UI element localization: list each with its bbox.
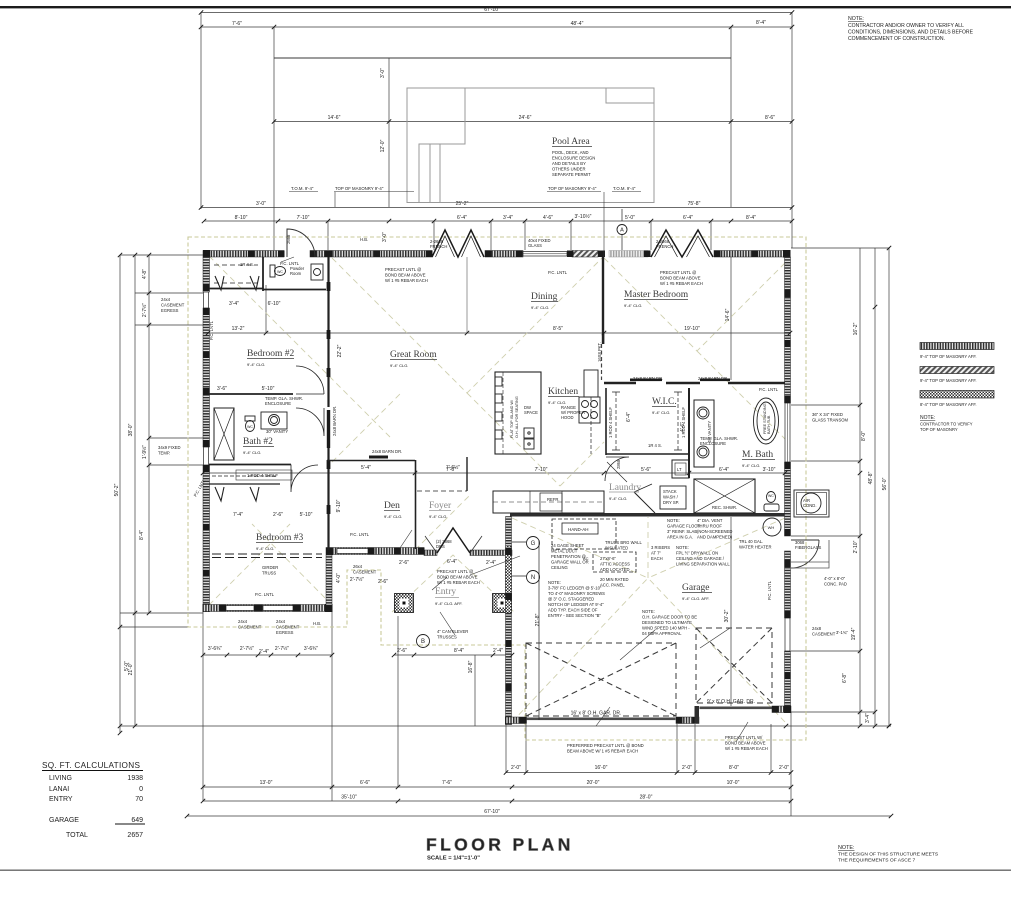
freestanding tub: [754, 398, 779, 444]
svg-text:3'-4": 3'-4": [503, 215, 513, 221]
svg-text:CEILING AND GARAGE /: CEILING AND GARAGE /: [676, 556, 725, 561]
mbath sinks: [697, 407, 709, 419]
barn door slabs master: [630, 379, 662, 382]
svg-text:9'-4" CLG.: 9'-4" CLG.: [624, 303, 642, 308]
left dim connectors: [120, 255, 203, 627]
svg-text:REC. SHWR.: REC. SHWR.: [712, 505, 737, 510]
svg-text:4'-0": 4'-0": [336, 573, 342, 583]
bottom dim row y811 overall 67'-10: [187, 815, 891, 817]
svg-text:PREFERRED PRECAST LNTL @ BOND: PREFERRED PRECAST LNTL @ BOND: [567, 743, 644, 748]
svg-text:GARAGE: GARAGE: [49, 817, 79, 824]
pocket door dashed: [601, 344, 603, 380]
svg-text:3'-4": 3'-4": [229, 301, 239, 307]
svg-text:5'-10": 5'-10": [262, 386, 275, 392]
key circle B: [417, 635, 430, 648]
svg-text:2668: 2668: [286, 234, 291, 244]
dim extension vertical x731: [730, 27, 732, 207]
svg-text:CASEMENT: CASEMENT: [276, 625, 300, 630]
svg-text:75'-8": 75'-8": [688, 201, 701, 207]
den top wall: [327, 460, 415, 462]
svg-text:DRS: DRS: [436, 544, 445, 549]
svg-text:LIVING SEPARATION WALL: LIVING SEPARATION WALL: [676, 562, 730, 567]
left wall solid blocks: [203, 284, 211, 612]
svg-text:GIRDER: GIRDER: [262, 565, 278, 570]
mbath vanity: [694, 400, 714, 467]
svg-text:9'-4" TOP OF MASONRY AFF.: 9'-4" TOP OF MASONRY AFF.: [920, 354, 977, 359]
svg-text:SPACE: SPACE: [524, 410, 538, 415]
svg-text:6'-4": 6'-4": [447, 559, 457, 565]
AC unit on pad: [794, 490, 829, 517]
svg-text:SQ. FT. CALCULATIONS: SQ. FT. CALCULATIONS: [42, 761, 140, 770]
svg-text:3'-10": 3'-10": [763, 467, 776, 473]
left wall window bedroom2 24x4: [204, 292, 209, 308]
left dim vertical x120 50'-2: [119, 255, 121, 733]
svg-text:CONDITIONS, DIMENSIONS, AND DE: CONDITIONS, DIMENSIONS, AND DETAILS BEFO…: [848, 30, 974, 36]
svg-text:30'-2": 30'-2": [724, 609, 730, 622]
bath2 north wall: [209, 393, 293, 395]
dim line pool 14'-6 24'-6 8'-6: [274, 121, 792, 123]
svg-text:G: G: [531, 541, 536, 547]
svg-text:24'-6": 24'-6": [519, 115, 532, 121]
svg-text:6'-6": 6'-6": [360, 780, 370, 786]
svg-text:5'-10": 5'-10": [300, 512, 313, 518]
svg-text:27'x8'-6": 27'x8'-6": [600, 556, 616, 561]
entry lower dim row y655: [394, 654, 512, 656]
side door 3068 opening arc to conc pad: [791, 540, 819, 568]
svg-text:ENCLOSURE: ENCLOSURE: [265, 401, 291, 406]
svg-text:GARAGE FLOOR: GARAGE FLOOR: [667, 524, 701, 529]
svg-text:WC: WC: [277, 270, 283, 274]
svg-text:24x4: 24x4: [238, 619, 248, 624]
svg-text:CONTRACTOR AND/OR OWNER TO VER: CONTRACTOR AND/OR OWNER TO VERIFY ALL: [848, 23, 964, 29]
svg-text:CONTRACTOR TO VERIFY: CONTRACTOR TO VERIFY: [920, 422, 973, 427]
roof hip great room lower: [332, 392, 470, 550]
svg-text:W/ 1 #5 REBAR EACH: W/ 1 #5 REBAR EACH: [725, 746, 768, 751]
svg-text:ADD TYP. EACH SIDE OF: ADD TYP. EACH SIDE OF: [548, 608, 598, 613]
svg-text:2'-10": 2'-10": [853, 540, 859, 553]
svg-text:PRECAST LNTL @: PRECAST LNTL @: [660, 270, 696, 275]
svg-text:26x4: 26x4: [353, 564, 363, 569]
svg-text:2'-6": 2'-6": [378, 579, 388, 585]
svg-text:TOP OF MASONRY 9'-4": TOP OF MASONRY 9'-4": [335, 186, 384, 191]
svg-text:Pool Area: Pool Area: [552, 137, 591, 147]
WIC closet rods dashed: [616, 392, 678, 450]
svg-text:8'-6": 8'-6": [765, 115, 775, 121]
svg-text:M. Bath: M. Bath: [742, 450, 773, 460]
svg-text:16' x 8' O.H. GAR. DR.: 16' x 8' O.H. GAR. DR.: [571, 711, 622, 717]
svg-text:BOND BEAM ABOVE: BOND BEAM ABOVE: [385, 273, 426, 278]
svg-text:PRECAST LNTL W/: PRECAST LNTL W/: [725, 735, 763, 740]
mbath WC: [767, 492, 776, 503]
svg-text:HAND-AH: HAND-AH: [568, 527, 589, 532]
svg-text:CASEMENT: CASEMENT: [353, 570, 377, 575]
left wall window bath2 34x9 fixed: [204, 447, 209, 465]
svg-text:WH: WH: [768, 525, 775, 530]
svg-text:2'-0": 2'-0": [682, 765, 692, 771]
svg-text:P.C. LNTL: P.C. LNTL: [209, 320, 214, 340]
wall blocks on bed2/great wall: [327, 282, 331, 514]
svg-text:W/ 1 #5 REBAR EACH: W/ 1 #5 REBAR EACH: [437, 580, 480, 585]
svg-text:THE REQUIREMENTS OF ASCE 7: THE REQUIREMENTS OF ASCE 7: [838, 858, 915, 864]
svg-text:W.I.C.: W.I.C.: [652, 397, 677, 407]
svg-text:2'-7½": 2'-7½": [275, 645, 289, 652]
svg-text:30" VANITY: 30" VANITY: [266, 429, 288, 434]
laundry appliances: [607, 462, 627, 482]
island seating marks: [495, 377, 502, 386]
svg-text:9'-4" CLG. AFF.: 9'-4" CLG. AFF.: [435, 601, 463, 606]
roof hip master lower: [697, 351, 790, 444]
powder room bottom wall: [263, 289, 326, 291]
svg-text:AT 7": AT 7": [651, 551, 661, 556]
svg-text:COMMENCEMENT OF CONSTRUCTION.: COMMENCEMENT OF CONSTRUCTION.: [848, 36, 945, 42]
svg-text:7'-4": 7'-4": [233, 512, 243, 518]
dim extension vertical x792: [791, 13, 793, 249]
svg-text:TOP OF MASONRY: TOP OF MASONRY: [920, 427, 958, 432]
svg-text:48'-4": 48'-4": [571, 21, 584, 27]
svg-text:7'-10": 7'-10": [535, 467, 548, 473]
bath2 vanity sink: [269, 415, 280, 426]
svg-text:1R 4 S.: 1R 4 S.: [648, 443, 662, 448]
svg-text:LT: LT: [677, 467, 682, 472]
svg-text:OTHERS UNDER: OTHERS UNDER: [552, 167, 586, 172]
bath2 shower: [214, 408, 234, 460]
svg-text:16'-2": 16'-2": [853, 322, 859, 335]
svg-text:WC: WC: [247, 425, 253, 429]
svg-text:NOTE:: NOTE:: [848, 16, 864, 22]
interior dim line y473: [203, 472, 790, 474]
svg-text:1 ROD 4 SHELF: 1 ROD 4 SHELF: [681, 407, 686, 438]
svg-text:PRECAST LNTL @: PRECAST LNTL @: [437, 569, 473, 574]
svg-text:56'-0": 56'-0": [882, 477, 888, 490]
dim line 75'-8 above house: [201, 207, 792, 209]
svg-text:2'-7½": 2'-7½": [350, 576, 364, 583]
svg-text:8'-0": 8'-0": [729, 765, 739, 771]
svg-text:9'-4" CLG.: 9'-4" CLG.: [609, 496, 627, 501]
bottom dim row y796: [203, 800, 791, 802]
right wall casement window: [785, 618, 790, 651]
interior dim line y333: [208, 332, 790, 334]
pool enclosure outline: [407, 88, 654, 203]
bottom dim row y783: [203, 786, 791, 788]
svg-text:AND DETAILS BY: AND DETAILS BY: [552, 161, 586, 166]
entry french doors angled: [437, 528, 470, 553]
right dim vertical x860: [859, 248, 861, 726]
svg-text:3 RISERS: 3 RISERS: [651, 545, 670, 550]
pool enclosure top-right rect: [606, 88, 654, 103]
svg-text:@ 3" O.C. STAGGERED: @ 3" O.C. STAGGERED: [548, 597, 594, 602]
svg-text:70: 70: [135, 796, 143, 803]
roof valley kitchen: [467, 393, 604, 486]
svg-text:6'-4": 6'-4": [457, 215, 467, 221]
legend bar 2 diagonal hatch: [920, 367, 994, 374]
dim extension vertical x389: [388, 58, 390, 207]
exterior left wall masonry: [203, 257, 210, 292]
top wall dim verticals: [328, 221, 711, 250]
garage left wall masonry: [506, 517, 512, 725]
svg-text:2'-6": 2'-6": [397, 648, 407, 654]
svg-text:1938: 1938: [127, 775, 143, 782]
svg-text:ENTRY - SEE SECTION "B": ENTRY - SEE SECTION "B": [548, 613, 601, 618]
kitchen upper counter: [584, 370, 598, 397]
bottom dim verticals: [203, 612, 791, 816]
svg-text:3'-6¾": 3'-6¾": [304, 646, 318, 652]
exterior top wall masonry: [203, 251, 284, 258]
entry pier left: [395, 594, 414, 613]
svg-text:34x9 FIXED: 34x9 FIXED: [158, 445, 181, 450]
svg-text:AC: AC: [583, 556, 589, 561]
svg-text:4'-8": 4'-8": [142, 269, 148, 279]
right dim vertical x875: [874, 248, 876, 726]
svg-text:7'-10": 7'-10": [297, 215, 310, 221]
svg-text:3" REINF. SLAB: 3" REINF. SLAB: [667, 529, 697, 534]
svg-text:8'-4" TOP OF MASONRY AFF.: 8'-4" TOP OF MASONRY AFF.: [920, 402, 977, 407]
svg-text:P.C. LNTL: P.C. LNTL: [767, 580, 772, 600]
svg-text:Master Bedroom: Master Bedroom: [624, 290, 689, 300]
svg-text:WASH /: WASH /: [663, 495, 679, 500]
svg-text:LIVING: LIVING: [49, 775, 72, 782]
svg-text:ATTIC ACCESS: ATTIC ACCESS: [600, 562, 630, 567]
svg-text:67'-10": 67'-10": [484, 809, 500, 815]
bath2 WC: [246, 421, 255, 432]
garage pier between doors: [676, 717, 699, 724]
roof hip bed3: [209, 524, 332, 605]
svg-text:9'-4" CLG. AFF.: 9'-4" CLG. AFF.: [682, 596, 710, 601]
svg-text:9'-4" CLG.: 9'-4" CLG.: [247, 362, 265, 367]
top wall solid blocks: [203, 250, 791, 258]
WIC side walls: [605, 388, 607, 455]
bath2 hall door arc: [296, 408, 324, 436]
svg-text:36" X 34" FIXED: 36" X 34" FIXED: [812, 412, 843, 417]
WIC bottom wall: [606, 453, 689, 455]
stack washer dryer box: [660, 486, 686, 509]
step wall den to bed3: [326, 555, 332, 605]
svg-text:TRUSS BRG WALL: TRUSS BRG WALL: [605, 540, 643, 545]
svg-text:3'-6": 3'-6": [217, 386, 227, 392]
roof hip garage X: [512, 517, 785, 722]
right wall transom window: [785, 403, 790, 462]
svg-text:1 ROD 4 SHELF: 1 ROD 4 SHELF: [608, 407, 613, 438]
svg-text:24x8 BARN DR.: 24x8 BARN DR.: [372, 449, 402, 454]
svg-text:Bedroom #3: Bedroom #3: [256, 533, 303, 543]
svg-text:9'-4" TOP OF MASONRY AFF.: 9'-4" TOP OF MASONRY AFF.: [920, 378, 977, 383]
svg-text:20 MIN RATED: 20 MIN RATED: [600, 577, 629, 582]
svg-text:38'-0": 38'-0": [128, 423, 134, 436]
svg-text:8'-10": 8'-10": [235, 215, 248, 221]
svg-text:3'-0": 3'-0": [256, 201, 266, 207]
svg-text:7'-6": 7'-6": [442, 780, 452, 786]
svg-text:W/ 1 #5 REBAR EACH: W/ 1 #5 REBAR EACH: [385, 278, 428, 283]
svg-text:THE DESIGN OF THIS STRUCTURE M: THE DESIGN OF THIS STRUCTURE MEETS: [838, 852, 939, 858]
foyer dashed opening: [417, 490, 467, 492]
svg-text:22'-2": 22'-2": [337, 344, 343, 357]
svg-text:35'-10": 35'-10": [341, 795, 357, 801]
gable french door left (2-2668): [432, 230, 484, 257]
svg-text:TO 4'-0" MASONRY SCREWS: TO 4'-0" MASONRY SCREWS: [548, 591, 605, 596]
garage SE corner wall: [772, 706, 791, 713]
svg-text:AREA IN G.A.: AREA IN G.A.: [667, 535, 693, 540]
svg-text:H.B.: H.B.: [313, 621, 321, 626]
svg-text:649: 649: [131, 817, 143, 824]
svg-text:FIBERGLASS: FIBERGLASS: [795, 545, 822, 550]
svg-text:NOTE:: NOTE:: [838, 845, 854, 851]
svg-text:3'-10½": 3'-10½": [575, 213, 592, 220]
svg-text:B: B: [421, 639, 425, 645]
entry north wall segment left: [424, 550, 437, 556]
svg-text:5'-6": 5'-6": [641, 467, 651, 473]
svg-text:16X8 PKT.: 16X8 PKT.: [597, 342, 602, 362]
island sink: [524, 428, 534, 438]
svg-text:INSULATED: INSULATED: [605, 546, 628, 551]
water heater: [763, 518, 781, 536]
key circle A: [617, 225, 627, 235]
den front wall masonry: [326, 548, 424, 555]
bed3 bottom windows: [226, 606, 254, 611]
bedroom3 lower dim row y655: [203, 654, 332, 656]
svg-text:POOL, DECK, AND: POOL, DECK, AND: [552, 150, 589, 155]
svg-text:Room: Room: [290, 271, 302, 276]
svg-text:9'-4" CLG.: 9'-4" CLG.: [390, 363, 408, 368]
svg-text:20'-0": 20'-0": [587, 780, 600, 786]
svg-text:Laundry: Laundry: [609, 483, 641, 493]
svg-text:0: 0: [139, 786, 143, 793]
svg-text:ENCLOSURE: ENCLOSURE: [700, 441, 726, 446]
svg-text:2868: 2868: [616, 459, 621, 469]
svg-text:TOTAL: TOTAL: [66, 832, 88, 839]
svg-text:PRECAST LNTL @: PRECAST LNTL @: [385, 267, 421, 272]
den right wall: [415, 460, 417, 549]
great room / dining break line: [466, 257, 468, 333]
bedroom2 closet dashes: [214, 265, 258, 283]
svg-text:THRU ROOF: THRU ROOF: [697, 524, 722, 529]
garage door junction step wall: [695, 706, 700, 724]
svg-text:BEAM ABOVE W/ 1 #5 REBAR EACH: BEAM ABOVE W/ 1 #5 REBAR EACH: [567, 749, 638, 754]
key circle N: [527, 571, 540, 584]
svg-text:H.B.: H.B.: [360, 237, 368, 242]
svg-text:7'-6": 7'-6": [232, 21, 242, 27]
dim row above top wall: [204, 220, 792, 222]
svg-text:SCALE = 1/4"=1'-0": SCALE = 1/4"=1'-0": [427, 856, 480, 862]
roof hip great room left: [332, 258, 602, 393]
roof hip NW diagonal: [209, 256, 390, 437]
svg-text:8'-5": 8'-5": [553, 326, 563, 332]
long bottom dim line y726: [120, 725, 891, 727]
svg-text:5'-0": 5'-0": [124, 661, 130, 671]
attic access dashed: [593, 552, 636, 572]
svg-text:TRUSS: TRUSS: [262, 571, 276, 576]
bath2 / bed3 wall: [209, 464, 291, 466]
svg-text:NOTE:: NOTE:: [667, 518, 680, 523]
barn door slab bed2 wall: [327, 410, 330, 448]
svg-text:21'-8": 21'-8": [535, 613, 541, 626]
svg-text:1'-9½": 1'-9½": [141, 445, 148, 459]
bed3 door arc: [291, 465, 318, 493]
garage door dim row y768: [506, 772, 791, 774]
svg-text:Garage: Garage: [682, 583, 709, 593]
svg-text:CASEMENT: CASEMENT: [238, 625, 262, 630]
svg-text:8'-0": 8'-0": [861, 431, 867, 441]
kitchen range: [579, 397, 600, 423]
svg-text:9'-10": 9'-10": [336, 499, 342, 512]
svg-text:3-7/8" FC LEDGER @ 5'-10": 3-7/8" FC LEDGER @ 5'-10": [548, 586, 602, 591]
sheet top border line: [0, 6, 1011, 8]
hand-ah unit dashed: [552, 519, 616, 549]
svg-text:9'-4" CLG.: 9'-4" CLG.: [429, 514, 447, 519]
svg-text:8'-4": 8'-4": [746, 215, 756, 221]
svg-text:Kitchen: Kitchen: [548, 387, 578, 397]
svg-text:EGRESS: EGRESS: [161, 308, 179, 313]
svg-text:13'-2": 13'-2": [232, 326, 245, 332]
garage truss brace X left: [526, 643, 676, 716]
great room interior verticals for dims: [266, 285, 604, 344]
bed3 girder truss dashed: [212, 554, 322, 558]
svg-text:2'-0": 2'-0": [511, 765, 521, 771]
svg-text:4'-0" x 8'-0": 4'-0" x 8'-0": [824, 576, 846, 581]
gable french door right (2-2668): [651, 230, 713, 257]
svg-text:14'-6": 14'-6": [725, 308, 731, 321]
svg-text:TOP OF MASONRY 9'-4": TOP OF MASONRY 9'-4": [548, 186, 597, 191]
svg-text:4'-6": 4'-6": [543, 215, 553, 221]
svg-text:SEPARATE PERMIT: SEPARATE PERMIT: [552, 172, 591, 177]
garage separation wall: [510, 513, 785, 517]
svg-text:25'-2": 25'-2": [456, 201, 469, 207]
svg-text:1R 4 S.: 1R 4 S.: [240, 262, 254, 267]
svg-text:8'-4": 8'-4": [139, 530, 145, 540]
pool enclosure step notch left: [419, 88, 465, 203]
svg-text:2'-4": 2'-4": [259, 649, 269, 655]
master dim vertical x731: [730, 257, 732, 380]
svg-text:5'-0": 5'-0": [625, 215, 635, 221]
svg-text:TRL 40 GAL.: TRL 40 GAL.: [739, 539, 763, 544]
foyer/great room jamb: [466, 457, 468, 491]
sheet bottom border line: [0, 870, 1011, 871]
exterior right wall masonry: [785, 257, 791, 403]
svg-text:CASEMENT: CASEMENT: [812, 632, 836, 637]
svg-text:P.C. LNTL: P.C. LNTL: [759, 387, 779, 392]
svg-text:Den: Den: [384, 501, 400, 511]
bath2 vanity: [261, 412, 287, 429]
svg-text:CONC. PAD: CONC. PAD: [824, 582, 847, 587]
kitchen island: [495, 372, 541, 454]
bed3 closet V hangers: [215, 487, 259, 501]
svg-text:WATER HEATER: WATER HEATER: [739, 545, 772, 550]
LT closet: [672, 460, 689, 478]
svg-text:24x4: 24x4: [161, 297, 171, 302]
svg-text:BOND BEAM ABOVE: BOND BEAM ABOVE: [660, 276, 701, 281]
svg-text:04 FBPA APPROVAL: 04 FBPA APPROVAL: [642, 631, 682, 636]
svg-text:NOTCH OF LEDGER AT 9'-4": NOTCH OF LEDGER AT 9'-4": [548, 602, 604, 607]
svg-text:TEMP.: TEMP.: [158, 451, 170, 456]
svg-text:NOTE:: NOTE:: [920, 415, 935, 421]
svg-text:48'-8": 48'-8": [868, 471, 874, 484]
roof eave dashed outline: [188, 237, 806, 740]
bedroom3 bottom wall masonry: [203, 605, 332, 612]
svg-text:BOND BEAM ABOVE: BOND BEAM ABOVE: [437, 575, 478, 580]
bed2 closet V hangers: [215, 276, 259, 290]
letters in key circles: [421, 228, 624, 646]
svg-text:HOOD: HOOD: [561, 415, 574, 420]
svg-text:DRY SP.: DRY SP.: [663, 500, 679, 505]
top wall window 40x4 fixed glass: [523, 252, 567, 257]
svg-text:Bedroom #2: Bedroom #2: [247, 349, 294, 359]
svg-text:3'-0": 3'-0": [382, 232, 388, 242]
svg-text:WIND SPEED 140 MPH -: WIND SPEED 140 MPH -: [642, 626, 690, 631]
svg-text:P.C. LNTL: P.C. LNTL: [548, 270, 568, 275]
svg-text:28'-0": 28'-0": [640, 795, 653, 801]
svg-text:16'-0": 16'-0": [595, 765, 608, 771]
right dim connectors: [791, 248, 889, 712]
powder room sink: [311, 264, 323, 280]
svg-text:24x8 BARN DR.: 24x8 BARN DR.: [633, 376, 663, 381]
